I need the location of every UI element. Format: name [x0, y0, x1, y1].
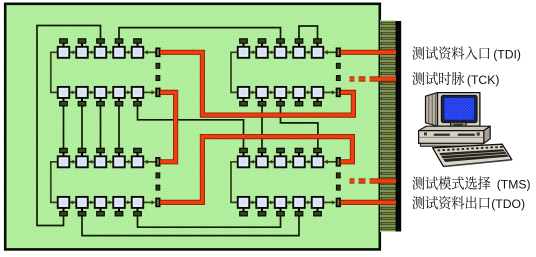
- label TMS: 测试模式选择 (TMS): [412, 176, 530, 191]
- U1 pin pad 4: [115, 39, 123, 47]
- U2 TDI entry arrow: [324, 50, 337, 54]
- wire net2: U1 pin4 to U2 pin3: [119, 28, 281, 39]
- U1 TDI entry arrow: [144, 50, 156, 54]
- U2 pin pad 5: [314, 39, 322, 47]
- U1 scan link row2 seg1: [69, 90, 76, 94]
- U3 TDO exit arrow: [143, 200, 155, 204]
- wire net5: U1 pin7 to U3 pin2: [81, 105, 83, 149]
- U3 pin pad 6: [60, 208, 68, 216]
- U3 boundary-scan cell 2: [76, 156, 88, 167]
- U1 boundary-scan cell 7: [76, 87, 88, 98]
- U4 scan link row1 seg4: [305, 160, 312, 164]
- U4 boundary-scan cell 1: [238, 156, 250, 167]
- TCK trace (dashed): [350, 76, 355, 81]
- monitor screen: [441, 95, 477, 122]
- U1 boundary-scan cell 8: [95, 87, 107, 98]
- U4 scan link row1 seg1: [249, 160, 256, 164]
- U4 boundary-scan cell 7: [256, 197, 268, 208]
- U4 scan link row1 seg2: [268, 160, 275, 164]
- U4 TDI port bar: [336, 158, 340, 167]
- U2 boundary-scan cell 3: [275, 47, 287, 58]
- test computer icon: [419, 93, 513, 167]
- U4 boundary-scan cell 8: [275, 197, 287, 208]
- svg-text:(TDO): (TDO): [491, 197, 525, 211]
- wire net9: U2 pin7 to U4 pin2: [261, 105, 263, 149]
- U4 scan link row2 seg2: [268, 200, 275, 204]
- U2 boundary-scan cell 1: [238, 47, 250, 58]
- U3 pin pad 5: [134, 148, 142, 156]
- U4 boundary-scan cell 6: [238, 197, 250, 208]
- label TCK: 测试时脉 (TCK): [412, 72, 499, 87]
- scan chain trace U3 TDO to U4 TDI: [160, 137, 352, 203]
- U1 boundary-scan cell 2: [76, 47, 88, 58]
- U1 boundary-scan cell 1: [58, 47, 70, 58]
- U4 pin pad 6: [240, 208, 248, 216]
- U3 scan-chain internal loop wire: [51, 162, 58, 203]
- U3 scan link row1 seg1: [69, 160, 76, 164]
- U1 boundary-scan cell 4: [113, 47, 125, 58]
- U3 TDI port bar: [156, 158, 160, 167]
- U2 pin pad 3: [277, 39, 285, 47]
- wire net11: U3 pin15 to U4 pin13: [138, 214, 281, 227]
- U1 scan link row1 seg2: [88, 50, 95, 54]
- U2 scan-chain internal loop wire: [231, 52, 238, 92]
- U2 boundary-scan cell 4: [293, 47, 305, 58]
- U4 internal scan path (dashed): [336, 173, 340, 190]
- U2 pin pad 6: [240, 98, 248, 106]
- U2 TDI port bar: [336, 48, 340, 57]
- U1 scan link row1 seg4: [125, 50, 132, 54]
- wire net8: U1 pin10 to U4 pin1 (jog): [138, 105, 244, 149]
- U4 pin pad 2: [258, 148, 266, 156]
- U1 scan link row2 seg3: [106, 90, 113, 94]
- U4 boundary-scan cell 2: [256, 156, 268, 167]
- U4 pin pad 10: [314, 208, 322, 216]
- scan chain trace U2 TDO to U1 TDI: [160, 52, 353, 115]
- label TDI: 测试资料入口 (TDI): [412, 46, 521, 61]
- U3 pin pad 3: [97, 148, 105, 156]
- U2 boundary-scan cell 8: [275, 87, 287, 98]
- U1 pin pad 8: [97, 98, 105, 106]
- U2 scan link row1 seg4: [305, 50, 312, 54]
- U2 scan link row2 seg2: [268, 90, 275, 94]
- U1 scan link row2 seg2: [88, 90, 95, 94]
- U2 pin pad 4: [295, 39, 303, 47]
- U1 boundary-scan cell 6: [58, 87, 70, 98]
- U2 boundary-scan cell 5: [312, 47, 324, 58]
- U3 scan link row2 seg1: [69, 200, 76, 204]
- TDI trace from edge connector to U2: [341, 50, 396, 55]
- U3 scan link row1 seg4: [125, 160, 132, 164]
- scan chain trace U1 TDO to U3 TDI: [160, 92, 175, 161]
- svg-text:(TMS): (TMS): [497, 178, 531, 192]
- U4 boundary-scan cell 3: [275, 156, 287, 167]
- U3 TDI entry arrow: [144, 160, 156, 164]
- U3 boundary-scan cell 9: [113, 197, 125, 208]
- U3 boundary-scan cell 4: [113, 156, 125, 167]
- U2 scan link row2 seg3: [286, 90, 293, 94]
- U4 TDO exit arrow: [323, 200, 336, 204]
- U1 pin pad 1: [60, 39, 68, 47]
- U3 boundary-scan cell 7: [76, 197, 88, 208]
- U3 pin pad 8: [97, 208, 105, 216]
- U4 scan link row2 seg1: [249, 200, 256, 204]
- U1 pin pad 9: [115, 98, 123, 106]
- U4 pin pad 8: [277, 208, 285, 216]
- U2 pin pad 1: [240, 39, 248, 47]
- U3 pin pad 10: [134, 208, 142, 216]
- U2 boundary-scan cell 6: [238, 87, 250, 98]
- U2 TDO exit arrow: [323, 90, 336, 94]
- monitor side panel: [426, 93, 438, 127]
- U4 pin pad 5: [314, 148, 322, 156]
- wire net4: U1 pin6 to U3 pin1: [63, 105, 65, 149]
- U2 scan link row1 seg3: [286, 50, 293, 54]
- U1 pin pad 3: [97, 39, 105, 47]
- U3 scan link row1 seg3: [106, 160, 113, 164]
- wire net7: U1 pin9 to U3 pin4: [118, 105, 120, 149]
- system unit front: [419, 131, 484, 144]
- U3 scan link row2 seg3: [106, 200, 113, 204]
- U4 pin pad 7: [258, 208, 266, 216]
- U3 TDO port bar: [156, 198, 160, 207]
- edge connector fingers: [380, 20, 396, 232]
- U1 scan-chain internal loop wire: [51, 52, 58, 92]
- U1 scan link row1 seg3: [106, 50, 113, 54]
- U3 boundary-scan cell 3: [95, 156, 107, 167]
- U2 internal scan path (dashed): [336, 63, 340, 80]
- system unit top: [419, 126, 491, 130]
- U3 internal scan path (dashed): [156, 173, 160, 190]
- U4 TDO port bar: [336, 198, 340, 207]
- U1 TDI port bar: [156, 48, 160, 57]
- wire net6: U1 pin8 to U3 pin3: [100, 105, 102, 149]
- U3 pin pad 7: [78, 208, 86, 216]
- TMS trace (dashed): [350, 178, 355, 183]
- U3 scan link row1 seg2: [88, 160, 95, 164]
- U3 boundary-scan cell 6: [58, 197, 70, 208]
- system unit base: [420, 143, 482, 146]
- monitor front bezel: [438, 93, 480, 127]
- svg-text:(TDI): (TDI): [493, 48, 521, 62]
- U4 pin pad 4: [295, 148, 303, 156]
- keyboard: [433, 144, 513, 166]
- U3 boundary-scan cell 5: [132, 156, 144, 167]
- monitor pedestal: [451, 122, 467, 127]
- U4 pin pad 1: [240, 148, 248, 156]
- U1 boundary-scan cell 3: [95, 47, 107, 58]
- U1 boundary-scan cell 5: [132, 47, 144, 58]
- U2 pin pad 8: [277, 98, 285, 106]
- U3 boundary-scan cell 10: [132, 197, 144, 208]
- U1 boundary-scan cell 10: [132, 87, 144, 98]
- U3 scan link row2 seg4: [125, 200, 132, 204]
- edge connector body bar: [396, 21, 402, 232]
- U2 scan link row1 seg1: [249, 50, 256, 54]
- U1 TDO port bar: [156, 88, 160, 97]
- U1 pin pad 10: [134, 98, 142, 106]
- U2 scan link row1 seg2: [268, 50, 275, 54]
- U2 TDO port bar: [336, 88, 340, 97]
- U4 TDI entry arrow: [324, 160, 337, 164]
- U1 scan link row2 seg4: [125, 90, 132, 94]
- U2 pin pad 9: [295, 98, 303, 106]
- U3 pin pad 1: [60, 148, 68, 156]
- U1 TDO exit arrow: [143, 90, 155, 94]
- system unit right side: [484, 126, 490, 143]
- PCB board: [5, 4, 380, 250]
- U1 pin pad 7: [78, 98, 86, 106]
- U2 boundary-scan cell 10: [312, 87, 324, 98]
- U2 boundary-scan cell 9: [293, 87, 305, 98]
- U1 pin pad 5: [134, 39, 142, 47]
- U4 boundary-scan cell 4: [293, 156, 305, 167]
- U1 scan link row1 seg1: [69, 50, 76, 54]
- U1 pin pad 6: [60, 98, 68, 106]
- U1 pin pad 2: [78, 39, 86, 47]
- U4 scan link row2 seg3: [286, 200, 293, 204]
- U2 boundary-scan cell 2: [256, 47, 268, 58]
- wire net12: U3 pin12 to U4 pin14: [82, 214, 299, 236]
- U3 boundary-scan cell 8: [95, 197, 107, 208]
- U4 pin pad 3: [277, 148, 285, 156]
- U2 pin pad 7: [258, 98, 266, 106]
- TDO trace from U4 to edge connector: [341, 200, 396, 205]
- U2 pin pad 2: [258, 39, 266, 47]
- U3 pin pad 9: [115, 208, 123, 216]
- U2 scan link row2 seg4: [305, 90, 312, 94]
- U2 boundary-scan cell 7: [256, 87, 268, 98]
- svg-text:(TCK): (TCK): [467, 73, 500, 87]
- U1 boundary-scan cell 9: [113, 87, 125, 98]
- label TDO: 测试资料出口(TDO): [412, 196, 525, 211]
- wire net3: U2 pin4 to U2 pin5 (arch): [299, 26, 318, 39]
- U4 scan-chain internal loop wire: [231, 162, 238, 203]
- U2 scan link row2 seg1: [249, 90, 256, 94]
- U2 pin pad 10: [314, 98, 322, 106]
- U3 pin pad 2: [78, 148, 86, 156]
- U4 scan link row1 seg3: [286, 160, 293, 164]
- wire net10: U2 pin8 to U4 pin5 (jog): [281, 105, 318, 149]
- U3 boundary-scan cell 1: [58, 156, 70, 167]
- U3 pin pad 4: [115, 148, 123, 156]
- U1 internal scan path (dashed): [156, 63, 160, 80]
- U3 scan link row2 seg2: [88, 200, 95, 204]
- U4 pin pad 9: [295, 208, 303, 216]
- U4 boundary-scan cell 10: [312, 197, 324, 208]
- U4 scan link row2 seg4: [305, 200, 312, 204]
- U4 boundary-scan cell 9: [293, 197, 305, 208]
- wire net1: U1 pin3 to U3 pin11 (left board loop): [37, 26, 101, 226]
- U4 boundary-scan cell 5: [312, 156, 324, 167]
